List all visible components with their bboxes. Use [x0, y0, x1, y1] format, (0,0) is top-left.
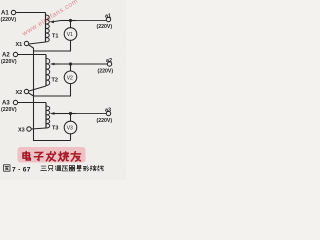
svg-text:(220V): (220V)	[97, 24, 113, 30]
T3 wiper arrow	[54, 113, 60, 115]
red watermark char 子	[34, 152, 42, 160]
svg-text:X3: X3	[18, 128, 25, 134]
voltmeter V1	[64, 28, 77, 41]
arrowhead T1 wiper	[49, 20, 54, 23]
svg-text:X2: X2	[16, 90, 23, 96]
svg-text:T3: T3	[52, 126, 58, 132]
svg-text:(220V): (220V)	[1, 59, 17, 65]
svg-text:a2: a2	[106, 58, 112, 64]
terminal A2	[13, 52, 17, 56]
terminal a2	[107, 62, 111, 66]
svg-text:7 - 67: 7 - 67	[12, 166, 31, 173]
caption 形	[83, 166, 89, 171]
wire V1 top	[70, 21, 72, 28]
node junction V3	[69, 112, 72, 115]
node junction V2	[69, 62, 72, 65]
caption 调	[55, 166, 60, 171]
wire V2 bottom to neutral	[34, 84, 71, 96]
wire T2 wiper to a2	[60, 63, 107, 65]
node junction V1	[69, 19, 72, 22]
node X2	[24, 89, 28, 93]
svg-text:a1: a1	[105, 13, 111, 19]
neutral line	[34, 48, 71, 141]
wire X1 to neutral	[28, 45, 33, 48]
arrowhead T2 wiper	[50, 63, 55, 66]
svg-text:V3: V3	[67, 126, 73, 132]
svg-text:X1: X1	[16, 42, 23, 48]
T1 wiper arrow	[53, 21, 60, 22]
wire T1 wiper to a1	[60, 20, 76, 22]
svg-text:(220V): (220V)	[97, 118, 113, 124]
caption 三	[41, 166, 47, 171]
wire T3 wiper to a3	[60, 113, 76, 115]
svg-text:(220V): (220V)	[1, 17, 17, 23]
wire T3 bottom to X3	[31, 128, 46, 129]
wire A3 to T3 top	[18, 102, 46, 104]
wire V1 bottom to neutral	[34, 40, 71, 51]
terminal A3	[13, 100, 17, 104]
node X3	[27, 127, 31, 131]
caption 星	[77, 165, 81, 171]
svg-text:(220V): (220V)	[1, 107, 17, 113]
svg-text:T2: T2	[52, 78, 58, 84]
caption 接	[90, 165, 96, 170]
wire A1 to T1 top	[16, 12, 46, 14]
arrowhead T3 wiper	[50, 112, 55, 115]
red watermark char 电	[23, 152, 30, 160]
red watermark band background	[18, 147, 86, 163]
wire A2 to T2 top	[18, 54, 46, 56]
caption 线	[98, 166, 104, 171]
red watermark char 烧	[59, 152, 69, 161]
wire V3 bottom to neutral	[70, 134, 72, 141]
caption 器	[69, 165, 75, 170]
red watermark char 友	[71, 152, 80, 161]
autotransformer T2 winding	[45, 55, 47, 87]
node X1	[24, 41, 28, 45]
caption 压	[62, 166, 68, 171]
svg-text:A1: A1	[1, 10, 9, 16]
wire T2 bottom to X2	[29, 86, 46, 91]
T2 wiper arrow	[54, 63, 60, 65]
voltmeter V3	[64, 121, 77, 134]
wire X2 to neutral	[28, 93, 33, 96]
svg-text:(220V): (220V)	[98, 69, 114, 75]
caption 图	[4, 165, 10, 171]
terminal a3	[106, 111, 110, 115]
svg-text:a3: a3	[105, 107, 111, 113]
svg-text:V2: V2	[67, 75, 73, 81]
svg-text:A3: A3	[2, 101, 10, 107]
autotransformer T3 winding	[45, 103, 47, 129]
wire T1 bottom to X1	[29, 42, 46, 44]
svg-text:A2: A2	[2, 53, 10, 59]
caption 只	[49, 166, 53, 171]
svg-text:V1: V1	[67, 32, 73, 38]
autotransformer T1 winding	[45, 13, 47, 43]
wire V2 top	[70, 64, 72, 71]
terminal a1	[106, 17, 110, 21]
red watermark char 发	[46, 152, 55, 161]
wire V3 top	[70, 114, 72, 122]
svg-text:T1: T1	[52, 34, 58, 40]
terminal A1	[11, 10, 15, 14]
voltmeter V2	[64, 71, 77, 84]
